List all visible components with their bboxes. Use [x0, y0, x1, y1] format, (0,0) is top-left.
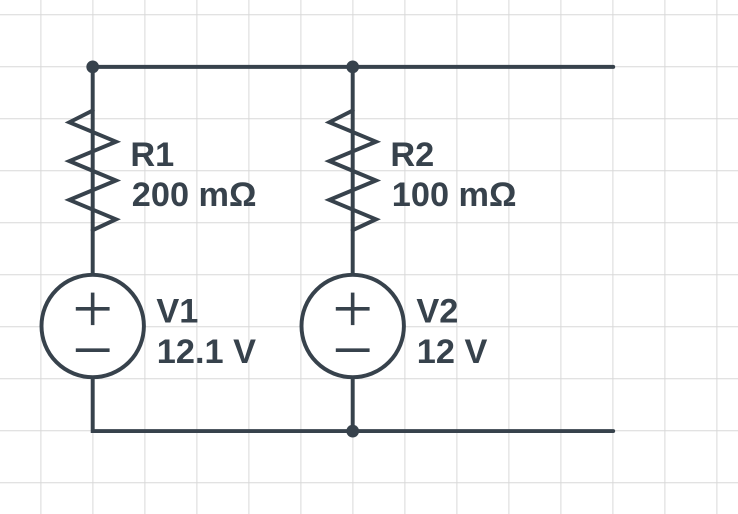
svg-text:12 V: 12 V	[417, 333, 488, 371]
svg-text:12.1 V: 12.1 V	[157, 333, 256, 371]
svg-text:200 mΩ: 200 mΩ	[132, 176, 257, 214]
svg-text:R2: R2	[390, 136, 434, 174]
svg-text:R1: R1	[130, 136, 174, 174]
svg-text:V2: V2	[416, 293, 458, 331]
svg-text:V1: V1	[156, 293, 198, 331]
svg-text:100 mΩ: 100 mΩ	[392, 176, 517, 214]
